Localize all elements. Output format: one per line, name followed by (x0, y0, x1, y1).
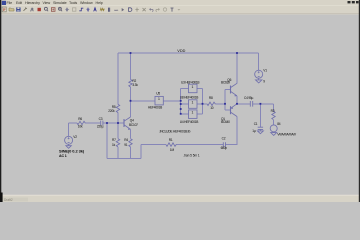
wire collector node to U5 (131, 100, 156, 102)
svg-text:.INCLUDE HEF4001B.lib: .INCLUDE HEF4001B.lib (159, 129, 191, 133)
icon pan (65, 7, 69, 11)
resistor R5 (116, 104, 119, 112)
gate "1" labels (158, 85, 194, 115)
junction output node C1 (260, 103, 262, 105)
wire base bus (224, 90, 226, 111)
wire Q6 base (225, 89, 231, 91)
wire R2 to collector node (130, 87, 132, 117)
wire U4 input (181, 113, 189, 115)
wire U5 output (163, 100, 180, 102)
wire Q1 collector down (236, 117, 238, 118)
icon label (94, 8, 97, 12)
svg-text:1µ: 1µ (252, 129, 256, 133)
junction VDD-Q6 collector (236, 52, 238, 54)
wire bus to R8 (203, 103, 208, 105)
icon undo (150, 8, 154, 11)
svg-text:1: 1 (158, 97, 160, 101)
capacitor C1 (258, 127, 263, 129)
svg-text:Tools: Tools (69, 1, 77, 5)
menu items (7, 1, 103, 5)
source B1 (270, 125, 277, 132)
status bar (0, 196, 360, 203)
inverter U4 box (189, 110, 198, 119)
icon halt (38, 8, 41, 11)
wire R2 column top (130, 53, 132, 80)
junction U8 input pin 1 (180, 103, 182, 105)
svg-text:220k: 220k (108, 109, 115, 113)
svg-text:U5: U5 (156, 92, 160, 96)
svg-text:680p: 680p (221, 146, 228, 150)
resistor R6 (77, 121, 85, 124)
wire feedback riser (140, 145, 142, 159)
wire Q6 emitter down (236, 96, 238, 104)
resistor R4 (129, 139, 132, 147)
resistor R8 (207, 102, 215, 105)
window edges (0, 0, 1, 202)
svg-text:View: View (43, 1, 51, 5)
junction emitters (236, 103, 238, 105)
wire Q4 emitter down (130, 129, 132, 138)
wire R6 to C3 (86, 122, 101, 124)
wire U3 output (197, 87, 203, 89)
svg-text:BC640: BC640 (221, 120, 230, 124)
icon ind (114, 9, 118, 11)
svg-text:R7: R7 (112, 138, 116, 142)
ground C1 (257, 131, 263, 134)
wire C2 to Q1 collector riser (226, 118, 238, 145)
svg-text:U4 HEF4001B: U4 HEF4001B (180, 120, 198, 124)
ground V1 (256, 80, 262, 83)
wire R3 to B1 (273, 120, 275, 125)
svg-text:C4 95µ: C4 95µ (244, 96, 254, 100)
wire V2 to ground (68, 144, 70, 145)
svg-text:U8 HEF4001B: U8 HEF4001B (180, 96, 198, 100)
wire input row (69, 122, 77, 124)
svg-text:R8: R8 (209, 96, 213, 100)
svg-text:3.3k: 3.3k (132, 83, 138, 87)
svg-text:91: 91 (124, 143, 128, 147)
wire R1 to C2 (177, 144, 223, 146)
wire C3 to base (103, 122, 124, 124)
icon cap (109, 8, 110, 12)
svg-text:C2: C2 (222, 137, 226, 141)
svg-text:R1: R1 (169, 138, 173, 142)
svg-text:C3: C3 (99, 117, 103, 121)
icon comp (129, 8, 132, 12)
svg-text:Simulate: Simulate (53, 1, 67, 5)
resistor R7 (116, 139, 119, 147)
window control buttons (348, 1, 359, 3)
icon resistor (100, 8, 104, 10)
svg-text:R6: R6 (78, 117, 82, 121)
svg-text:HEF4001B: HEF4001B (148, 106, 162, 110)
svg-text:84: 84 (277, 122, 281, 126)
svg-text:.tran 5 5m 1: .tran 5 5m 1 (183, 154, 200, 158)
junction U5 output on input bus (180, 100, 182, 102)
wire gate input bus (180, 88, 182, 114)
inverter U8 box (189, 100, 198, 109)
wire R4 bottom (130, 147, 132, 158)
icon move (135, 8, 138, 12)
wire emitters to C4 (237, 103, 250, 105)
wire R7 column (117, 123, 119, 139)
svg-text:Help: Help (96, 1, 103, 5)
wire output down to R3 (273, 104, 275, 112)
wire U8 input (181, 103, 189, 105)
svg-text:1: 1 (192, 111, 194, 115)
svg-text:1M: 1M (170, 148, 175, 152)
transistor Q1 (230, 106, 232, 114)
icon hammer (24, 8, 27, 11)
svg-text:1: 1 (192, 101, 194, 105)
wire V1 to ground (258, 78, 260, 80)
junction VDD-R2 (130, 52, 132, 54)
wire U3 input (181, 87, 189, 89)
junction base bus (224, 103, 226, 105)
icon new (2, 7, 6, 12)
wire bottom rail (107, 157, 141, 159)
svg-text:U3 HEF4001B: U3 HEF4001B (181, 81, 199, 85)
svg-text:R4: R4 (124, 138, 128, 142)
icon open (9, 8, 14, 11)
capacitor C4 (250, 101, 252, 107)
svg-text:SINE(0 0.2 3k): SINE(0 0.2 3k) (59, 149, 85, 154)
wire V2 column (68, 123, 70, 136)
menu and toolbar background (0, 0, 360, 14)
transistor Q6 (230, 86, 232, 94)
icon grid (73, 8, 76, 11)
svg-text:220µ: 220µ (97, 125, 104, 129)
icon diode (122, 8, 124, 11)
icon zoomout (58, 7, 61, 10)
wire B1 to ground (273, 131, 275, 134)
wire R5 column top (117, 53, 119, 104)
icon ground (87, 8, 90, 12)
svg-text:Edit: Edit (16, 1, 22, 5)
icon redo (156, 8, 160, 11)
icon wire (79, 8, 83, 11)
junction U8 input pin 2 (180, 108, 182, 110)
icon run (31, 8, 34, 12)
icon zoomfull (51, 8, 55, 12)
wire R7 bottom (117, 147, 119, 158)
wire C1 to ground (259, 129, 261, 131)
wire Q1 base (225, 109, 231, 111)
svg-text:1: 1 (192, 85, 194, 89)
voltage source V2 (65, 136, 73, 144)
icon drag (143, 8, 146, 11)
wire Q6 collector up (236, 53, 238, 83)
svg-text:10: 10 (210, 106, 214, 110)
ground B1 (271, 133, 277, 136)
wire U8 output (197, 103, 203, 105)
transistor Q4 (123, 119, 125, 127)
svg-text:File: File (7, 1, 13, 5)
svg-text:Hierarchy: Hierarchy (25, 1, 40, 5)
junction U4 input pin (180, 113, 182, 115)
toolbar icons (2, 7, 180, 12)
wire junction column (106, 123, 108, 158)
junction C3 to base wire (106, 122, 108, 124)
resistor R1 (166, 143, 176, 146)
voltage source V1 (255, 70, 263, 78)
svg-text:Q4: Q4 (130, 119, 134, 123)
resistor R2 (129, 80, 132, 88)
wire R8 to bases (215, 103, 225, 105)
svg-text:V2: V2 (73, 135, 77, 139)
icon dots (178, 9, 181, 11)
icon text (171, 8, 174, 12)
junction output bus to R8 (202, 103, 204, 105)
inverter U3 box (189, 84, 198, 93)
svg-text:VVVVVVVVVVV: VVVVVVVVVVV (277, 133, 296, 137)
wire C4 to output node (253, 103, 274, 105)
icon zoomin (44, 7, 47, 10)
svg-text:BC107: BC107 (129, 123, 138, 127)
wire feedback left (141, 144, 166, 146)
svg-text:Draft2: Draft2 (4, 198, 13, 202)
app icon in menubar (2, 1, 6, 5)
resistor R3 (272, 112, 275, 120)
icon save (16, 7, 20, 11)
junction R5-R7 base node (117, 122, 119, 124)
wire VDD rail (118, 52, 259, 54)
capacitor C2 (223, 142, 225, 147)
svg-text:10k: 10k (78, 125, 83, 129)
icon rotate (163, 8, 166, 11)
svg-text:C1: C1 (254, 122, 258, 126)
svg-text:VDD: VDD (177, 49, 185, 53)
inverter U5 (155, 96, 163, 105)
wire U4 output (197, 113, 203, 115)
junction Q4 collector node (130, 100, 132, 102)
svg-text:AC 1: AC 1 (59, 154, 67, 158)
capacitor C3 (101, 121, 103, 126)
wire C1 column (259, 104, 261, 127)
svg-text:V1: V1 (263, 68, 267, 72)
svg-text:BC639: BC639 (221, 81, 230, 85)
ground V2 (66, 146, 71, 149)
wire V1 drop (258, 53, 260, 70)
wire R5 to base node (117, 113, 119, 123)
wire gate output bus (202, 88, 204, 114)
svg-text:R3: R3 (271, 109, 275, 113)
svg-text:Window: Window (80, 1, 93, 5)
